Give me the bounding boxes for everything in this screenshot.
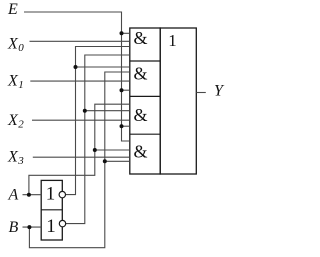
AND gate U3 (130, 96, 160, 125)
inverter U7 output bubble (59, 220, 65, 226)
junction NOT-A U2 (74, 65, 78, 69)
junction A-U4 (93, 148, 97, 152)
wire B stub to U4 (105, 160, 130, 162)
svg-text:&: & (133, 28, 147, 48)
svg-text:&: & (133, 142, 147, 162)
wire NOT-A stub to U2 (76, 66, 130, 68)
junction B-U4 (103, 159, 107, 163)
wire A stub to U4 (95, 149, 130, 151)
junction E-U3 (120, 124, 124, 128)
AND gate U2 (130, 61, 160, 84)
svg-text:1: 1 (46, 216, 56, 237)
wire A input (23, 194, 42, 196)
wire E (input E to AND column, turns down at x=121.5) (24, 12, 130, 141)
wire NOT-B stub to U3 (85, 110, 130, 112)
wire NOT-A output (to U1 third input) (66, 47, 130, 195)
svg-text:E: E (7, 1, 18, 18)
junction A tap (27, 193, 31, 197)
svg-text:A: A (8, 187, 19, 204)
wire X2 (32, 119, 130, 121)
wire Y output (196, 92, 206, 94)
wire E stub to U2 (122, 89, 130, 91)
inverter U6 (NOT gate for A) (41, 180, 62, 240)
inverter U7 (NOT gate for B) (41, 210, 62, 237)
svg-text:1: 1 (168, 31, 177, 50)
junction B tap (27, 225, 31, 229)
svg-text:1: 1 (46, 184, 56, 205)
wire E stub to U3 (122, 125, 130, 127)
svg-text:B: B (9, 219, 19, 236)
wire E stub to U1 (122, 32, 130, 34)
junction E-U1 (120, 31, 124, 35)
svg-text:&: & (133, 105, 147, 125)
AND gate U1 (top AND cell) (130, 28, 160, 174)
wire X0 (30, 40, 130, 42)
wire A tap (up and over to U3 first input) (29, 104, 130, 195)
AND gate U4 (130, 134, 160, 161)
junction E-U2 (120, 88, 124, 92)
wire B tap (down, around bottom, up to U2 second input) (29, 72, 129, 248)
junction NOT-B U3 (83, 109, 87, 113)
wire X3 (33, 156, 130, 158)
wire B input (23, 226, 42, 228)
inverter U6 output bubble (59, 191, 65, 197)
OR gate U5 (160, 28, 196, 174)
svg-text:&: & (133, 64, 147, 84)
wire X1 (30, 80, 130, 82)
wire NOT-B output (to U1 fourth input) (66, 55, 130, 224)
